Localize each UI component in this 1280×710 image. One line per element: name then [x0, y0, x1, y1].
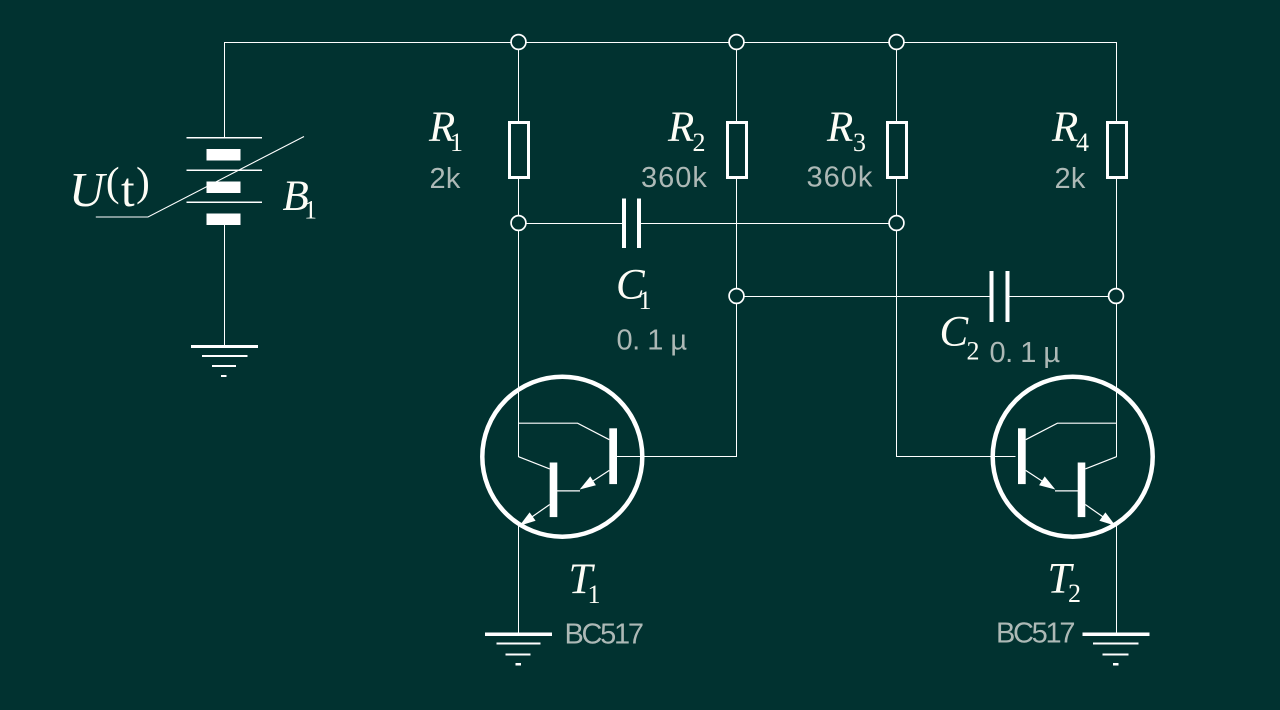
svg-text:2k: 2k	[1055, 163, 1086, 195]
node R3/C1	[889, 216, 904, 231]
transistor T1	[482, 377, 642, 537]
T2 input base bar	[1018, 428, 1026, 484]
ground (T1)	[485, 634, 552, 664]
T2 input emitter arrow	[1039, 476, 1055, 489]
battery short plates	[207, 149, 241, 225]
svg-text:360k: 360k	[641, 162, 708, 194]
svg-text:BC517: BC517	[996, 618, 1074, 650]
capacitor C2	[992, 271, 1008, 322]
node R2/C2	[729, 289, 744, 304]
T2 output emitter arrow	[1099, 512, 1115, 525]
svg-text:R: R	[826, 104, 853, 151]
wire T1 base lead outer	[617, 456, 737, 458]
capacitor C1	[624, 199, 639, 249]
resistor R1	[510, 123, 529, 178]
svg-text:0. 1 µ: 0. 1 µ	[990, 337, 1061, 369]
variability stroke	[96, 137, 304, 218]
svg-text:1: 1	[304, 196, 317, 225]
node dots	[511, 35, 1123, 304]
wire T1 emitter to ground	[518, 525, 520, 634]
wire T2 emitter to ground	[1116, 525, 1118, 634]
svg-text:R: R	[1051, 104, 1078, 151]
wire C1 row left	[519, 223, 623, 225]
T2 envelope circle	[993, 377, 1153, 537]
resistor R3	[888, 123, 907, 178]
node R4/C2	[1109, 289, 1124, 304]
T2 output base bar	[1078, 463, 1086, 518]
wire R1 top	[518, 42, 520, 121]
ground (T2)	[1083, 634, 1150, 664]
wire C2 row right	[1009, 296, 1116, 298]
svg-text:1: 1	[450, 128, 463, 157]
svg-text:2: 2	[693, 128, 706, 157]
wire C2 row left	[737, 296, 990, 298]
svg-text:1: 1	[639, 286, 652, 315]
node top R1	[511, 35, 526, 50]
transistor T2	[993, 377, 1153, 537]
wire R2 top	[736, 42, 738, 121]
svg-text:2: 2	[1068, 579, 1081, 608]
T2 internal collector/base/emitter lines	[1026, 423, 1117, 517]
T1 internal collector/base/emitter lines	[519, 423, 610, 517]
battery long plates	[187, 138, 263, 202]
svg-text:2: 2	[967, 337, 980, 366]
svg-text:3: 3	[853, 128, 866, 157]
T1 output base bar	[550, 463, 558, 518]
wire R1 bottom to T1 collector	[518, 179, 520, 458]
battery B1	[96, 137, 304, 226]
wire R3 top	[896, 42, 898, 121]
wire R4 bottom to T2 collector	[1116, 179, 1118, 458]
wire R3 bottom column	[897, 179, 1016, 457]
resistor R2	[728, 123, 747, 178]
wire battery bottom to ground	[224, 224, 226, 346]
wire R2 bottom column	[736, 179, 738, 458]
wire top rail	[225, 43, 1117, 138]
svg-text:4: 4	[1076, 128, 1089, 157]
ground (battery)	[191, 347, 258, 377]
T1 output emitter arrow	[520, 512, 536, 525]
T1 input base bar	[609, 428, 617, 484]
svg-text:BC517: BC517	[565, 618, 643, 650]
svg-text:R: R	[667, 104, 694, 151]
T1 input emitter arrow	[580, 476, 596, 489]
svg-text:C: C	[940, 309, 970, 356]
node top R2	[729, 35, 744, 50]
node top R3	[889, 35, 904, 50]
svg-text:0. 1 µ: 0. 1 µ	[617, 325, 688, 357]
svg-text:1: 1	[588, 580, 601, 609]
resistor R4	[1108, 123, 1127, 178]
node R1/C1	[511, 216, 526, 231]
svg-text:2k: 2k	[430, 163, 461, 195]
wire C1 row right	[641, 223, 896, 225]
T1 envelope circle	[482, 377, 642, 537]
svg-text:360k: 360k	[807, 162, 874, 194]
